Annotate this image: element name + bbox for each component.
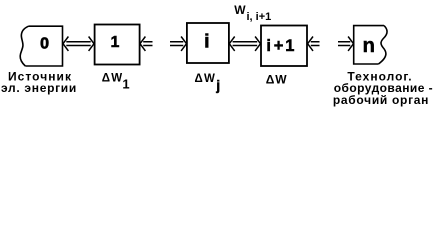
arrow A6 (right half-arrow into block n) (338, 37, 354, 51)
svg-text:n: n (363, 34, 376, 57)
svg-text:i: i (204, 31, 209, 53)
arrow A4 (double arrow between block i and block i+1) (229, 37, 260, 51)
arrow A2 (left half-arrow at block 1 right side) (140, 37, 153, 51)
svg-text:i: i (266, 37, 271, 55)
svg-text:1: 1 (122, 77, 129, 92)
svg-text:рабочий орган: рабочий орган (333, 93, 429, 107)
arrow A5 (left half-arrow at block i+1 right side) (308, 37, 320, 51)
svg-text:1: 1 (110, 34, 119, 51)
svg-text:W: W (234, 3, 246, 17)
block i+1 (261, 26, 307, 67)
svg-text:ΔW: ΔW (102, 73, 124, 85)
arrow A1 (double arrow between block 0 and block 1) (63, 37, 94, 51)
block i (187, 23, 229, 63)
block 0 (energy source, wavy left edge) (20, 26, 62, 66)
svg-text:+: + (274, 37, 284, 55)
svg-text:эл. энергии: эл. энергии (1, 81, 77, 95)
block n (working body, wavy right edge) (354, 26, 387, 64)
svg-text:1: 1 (285, 37, 294, 55)
svg-text:i, i+1: i, i+1 (247, 11, 272, 23)
svg-text:j: j (215, 77, 220, 93)
svg-text:ΔW: ΔW (266, 73, 288, 87)
arrow A3 (right half-arrow into block i) (170, 37, 187, 51)
svg-text:0: 0 (40, 36, 49, 53)
svg-text:ΔW: ΔW (195, 73, 217, 85)
block 1 (95, 25, 140, 65)
